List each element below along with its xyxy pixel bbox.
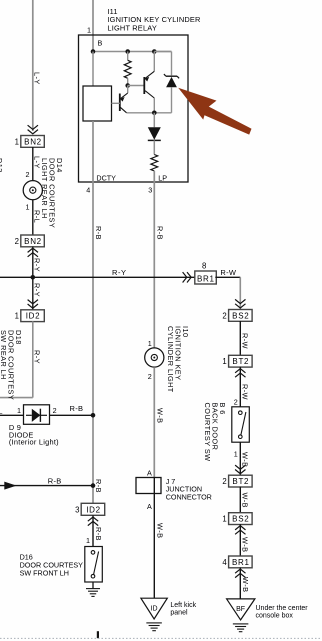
wire L-Y from top <box>32 0 34 131</box>
svg-text:2: 2 <box>26 170 30 179</box>
svg-text:1: 1 <box>26 203 30 212</box>
relay coil block (rectangle) <box>83 86 112 121</box>
svg-text:LP: LP <box>158 173 167 182</box>
relay internal bus wire <box>93 51 172 53</box>
svg-text:ID2: ID2 <box>86 505 101 514</box>
svg-text:BN2: BN2 <box>24 137 42 146</box>
svg-text:R-Y: R-Y <box>32 283 41 297</box>
svg-text:3: 3 <box>75 505 79 514</box>
svg-text:BF: BF <box>236 606 245 613</box>
junction dot at resistor top <box>125 49 130 54</box>
diode D9 interior light <box>24 405 50 425</box>
wire R-L into D9 <box>0 414 24 416</box>
chevron into BS2 <box>235 299 245 308</box>
svg-text:1: 1 <box>148 339 152 348</box>
lamp I10 ignition key cylinder light <box>145 348 164 367</box>
component label D14 <box>40 158 64 228</box>
component label B6 <box>203 403 227 462</box>
cursor arrow (pointer) <box>178 88 251 135</box>
svg-text:R-Y: R-Y <box>32 350 41 364</box>
wire BS2 to BR1 <box>239 524 241 556</box>
ground symbol ID <box>146 623 162 631</box>
svg-text:2: 2 <box>222 477 226 486</box>
wire label R-W <box>220 268 237 277</box>
component label J7 <box>166 477 212 502</box>
label left kick panel <box>170 602 196 617</box>
wire DCTY R-B trunk <box>92 182 94 503</box>
svg-text:BS2: BS2 <box>232 311 249 320</box>
svg-text:L: L <box>0 406 3 415</box>
svg-text:R-B: R-B <box>70 404 84 413</box>
svg-text:1: 1 <box>86 536 90 545</box>
wire output node to diode <box>153 113 155 128</box>
svg-text:1: 1 <box>222 515 226 524</box>
junction node R-Y <box>31 275 36 280</box>
wire label W-B (right 4) <box>241 577 250 592</box>
connector BR1 pin 4 <box>222 556 252 568</box>
svg-text:A: A <box>147 502 152 511</box>
svg-text:Under the center: Under the center <box>256 605 309 612</box>
connector BN2 pin 1 <box>15 136 45 148</box>
wire label R-Y (3) <box>32 350 41 364</box>
junction dot at resistor bottom / Q2 base <box>125 83 130 88</box>
pin 1 label D9 <box>17 406 21 415</box>
ground point BF <box>227 599 255 620</box>
wire diode to resistor R2 <box>153 140 155 154</box>
connector BT2 pin 1 <box>222 355 252 367</box>
connector BN2 pin 2 <box>15 235 45 247</box>
pin 1 label I10 <box>148 339 152 348</box>
component label I10 <box>166 326 190 393</box>
wire label R-B (LP) <box>156 226 165 240</box>
wire label W-B (right 1) <box>241 452 250 467</box>
pin 2 label D9 <box>53 406 57 415</box>
svg-text:ID2: ID2 <box>26 312 41 321</box>
svg-text:SW FRONT LH: SW FRONT LH <box>20 569 69 578</box>
junction node D9/R-B <box>91 413 96 418</box>
svg-text:BT2: BT2 <box>232 477 249 486</box>
wire label R-Y (2) <box>32 283 41 297</box>
resistor R (relay internal) <box>124 52 131 86</box>
wire BT2 to BS2 <box>239 487 241 513</box>
wire LP R-B to I10 <box>153 182 155 348</box>
svg-text:D13: D13 <box>0 158 4 173</box>
resistor R2 (relay internal) <box>151 155 158 172</box>
svg-text:A: A <box>147 468 152 477</box>
ground symbol D16 <box>86 589 100 597</box>
svg-text:BN2: BN2 <box>24 237 42 246</box>
svg-text:BR1: BR1 <box>232 558 250 567</box>
svg-text:L-Y: L-Y <box>32 72 41 85</box>
chevron out of BS2 <box>235 526 245 535</box>
chevron into BT2 pin2 <box>235 465 245 474</box>
svg-text:(Interior Light): (Interior Light) <box>9 437 59 446</box>
connector ID2 pin 1 <box>15 310 45 322</box>
svg-text:1: 1 <box>15 312 19 321</box>
chevron out of BR1 <box>235 569 245 578</box>
pin A label (bottom) <box>147 502 152 511</box>
svg-text:2: 2 <box>234 397 238 406</box>
wire label R-B (to ID2) <box>94 479 103 493</box>
wire D16 to ground <box>92 582 94 588</box>
wire junction to ID2 <box>32 277 34 310</box>
svg-text:R-B: R-B <box>156 226 165 240</box>
chevron into ID2 <box>28 300 38 309</box>
wire J7 to ground ID <box>153 494 155 599</box>
svg-text:R-W: R-W <box>220 268 237 277</box>
wire label R-Y horizontal <box>112 268 127 277</box>
wire BT2 to B6 switch <box>239 367 241 407</box>
page separator dotted line <box>0 637 322 639</box>
svg-text:R-L: R-L <box>32 210 41 223</box>
svg-text:R-B: R-B <box>94 226 103 240</box>
relay pin 3 number <box>148 186 152 195</box>
svg-text:panel: panel <box>170 610 188 617</box>
label under the center console box <box>256 605 309 620</box>
svg-text:R-B: R-B <box>94 527 103 541</box>
svg-text:1: 1 <box>17 406 21 415</box>
svg-text:2: 2 <box>148 372 152 381</box>
wire label W-B (right 2) <box>241 493 250 508</box>
arrow head R-B net <box>4 482 16 490</box>
wire label R-B (D9) <box>70 404 84 413</box>
svg-text:R-W: R-W <box>241 333 250 349</box>
ground symbol BF <box>233 624 249 632</box>
relay I11 pin 1 wire (top) <box>92 0 94 52</box>
connector BS2 pin 2 <box>222 310 252 322</box>
wire label R-B (arrow row) <box>48 476 62 485</box>
component label D18 door courtesy sw rear LH <box>0 330 23 400</box>
wire label R-B (D16) <box>94 527 103 541</box>
wire BR1 to ground BF <box>239 568 241 599</box>
wire label R-W (2) <box>241 333 250 349</box>
node B label <box>98 39 103 48</box>
wire label W-B (middle 2) <box>156 523 165 538</box>
wire label L-Y <box>32 72 41 85</box>
svg-text:CYLINDER LIGHT: CYLINDER LIGHT <box>166 326 175 393</box>
pin 1 label B6 <box>234 449 238 458</box>
svg-text:R-Y: R-Y <box>32 258 41 272</box>
wire BS2 to BT2 <box>239 321 241 355</box>
diode D (relay internal) <box>148 127 161 140</box>
wire BR1 to corner R-W <box>215 277 240 309</box>
svg-text:2: 2 <box>15 237 19 246</box>
wire B6 to BT2 pin 2 <box>239 442 241 475</box>
svg-text:1: 1 <box>234 449 238 458</box>
svg-text:1: 1 <box>15 137 19 146</box>
wire ID2 down to D18 <box>0 321 33 397</box>
relay I11 outline box <box>79 35 189 182</box>
svg-text:console box: console box <box>256 612 294 619</box>
relay pin 4 number <box>86 186 90 195</box>
svg-text:2: 2 <box>222 311 226 320</box>
svg-text:W-B: W-B <box>241 493 250 508</box>
junction node R-B/ID2 <box>91 483 96 488</box>
svg-text:1: 1 <box>222 357 226 366</box>
wire label W-B (right 3) <box>241 537 250 552</box>
svg-text:BR1: BR1 <box>197 275 215 284</box>
wire bus to coil block <box>92 52 94 87</box>
connector BR1 pin 8 <box>195 261 217 284</box>
terminal label DCTY <box>96 173 116 182</box>
switch B6 back door courtesy sw <box>232 407 250 442</box>
wire R2 to pin 3 LP <box>153 171 155 182</box>
connector BS2 pin 1 <box>222 513 252 525</box>
svg-text:W-B: W-B <box>241 537 250 552</box>
svg-text:W-B: W-B <box>156 523 165 538</box>
svg-text:SW REAR LH: SW REAR LH <box>0 330 8 380</box>
wire ID2 to D16 switch <box>92 515 94 546</box>
pin A label (top) <box>147 468 152 477</box>
relay I11 title <box>107 7 200 32</box>
pin 1 label D14 <box>26 203 30 212</box>
pin 2 label B6 <box>234 397 238 406</box>
pin 2 label I10 <box>148 372 152 381</box>
wire label R-L <box>32 210 41 223</box>
transistor Q1 (left) <box>112 86 128 113</box>
svg-text:R-Y: R-Y <box>112 268 127 277</box>
switch D16 door courtesy sw front LH <box>85 547 103 583</box>
wire label R-Y <box>32 258 41 272</box>
wire I10 to J7 <box>153 367 155 477</box>
pin 2 label D14 <box>26 170 30 179</box>
wire D9 to R-B trunk <box>50 414 94 416</box>
svg-text:R-B: R-B <box>48 476 62 485</box>
wire label R-B (DCTY) <box>94 226 103 240</box>
svg-text:4: 4 <box>222 558 227 567</box>
wire R-B from arrow <box>0 485 93 487</box>
svg-text:LIGHT RELAY: LIGHT RELAY <box>107 23 157 32</box>
svg-text:BT2: BT2 <box>232 357 249 366</box>
svg-text:4: 4 <box>86 186 90 195</box>
ground point ID <box>141 598 167 619</box>
svg-text:B: B <box>98 39 103 48</box>
svg-text:3: 3 <box>148 186 152 195</box>
svg-text:DCTY: DCTY <box>96 173 116 182</box>
svg-text:COURTESY SW: COURTESY SW <box>203 403 212 462</box>
wire R-Y horizontal net <box>0 276 195 278</box>
connector BT2 pin 2 <box>222 475 252 487</box>
svg-text:W-B: W-B <box>241 577 250 592</box>
chevron out of BN2 <box>28 248 38 257</box>
pin 1 label D16 <box>86 536 90 545</box>
svg-text:R-B: R-B <box>94 479 103 493</box>
junction dot output node <box>152 111 157 116</box>
relay pin 1 label <box>87 26 91 35</box>
component label D16 <box>20 552 84 577</box>
page tick mark <box>97 631 99 638</box>
clipped label D13 at left edge <box>0 158 4 173</box>
svg-text:CONNECTOR: CONNECTOR <box>166 493 212 502</box>
wire label W-B (middle) <box>156 408 165 423</box>
svg-text:Left kick: Left kick <box>170 602 196 609</box>
connector ID2 pin 3 <box>75 503 105 515</box>
junction dot at Q2 emitter branch <box>152 49 157 54</box>
component label D9 <box>9 423 59 447</box>
wire BN2 to junction <box>32 247 34 278</box>
svg-text:ID: ID <box>151 605 158 612</box>
wire label R-W (3) <box>241 384 250 400</box>
svg-text:BS2: BS2 <box>232 515 249 524</box>
wire coil block to pin 4 DCTY <box>92 121 94 182</box>
wire Q1 collector to output node <box>127 112 155 114</box>
wire BN2 to D14 lamp <box>32 147 34 181</box>
transistor Q2 (right) <box>144 52 154 113</box>
junction connector J7 <box>136 478 161 494</box>
zener diode ZD (relay internal) <box>154 52 179 113</box>
svg-text:W-B: W-B <box>156 408 165 423</box>
chevron into BR1 <box>183 272 192 282</box>
chevron out of ID2 pin3 <box>88 517 98 526</box>
wire label L (clipped) <box>0 406 3 415</box>
svg-text:R-W: R-W <box>241 384 250 400</box>
wire D14 to BN2 pin 2 <box>32 200 34 235</box>
svg-text:1: 1 <box>87 26 91 35</box>
junction dot at B bus left <box>91 49 96 54</box>
svg-text:8: 8 <box>202 261 206 270</box>
chevron out of BT2 <box>235 369 245 378</box>
terminal label LP <box>158 173 167 182</box>
lamp D14 door courtesy light rear LH <box>23 181 42 200</box>
svg-text:2: 2 <box>53 406 57 415</box>
chevron into BN2 <box>28 125 38 134</box>
wire Q2 base <box>128 85 145 87</box>
wire label L-Y (2) <box>32 156 41 169</box>
